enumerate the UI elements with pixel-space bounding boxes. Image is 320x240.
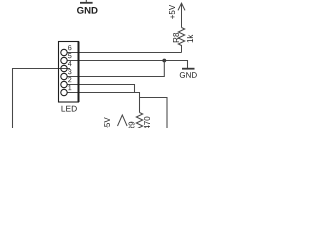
connector pin 2 circle bbox=[61, 81, 67, 87]
svg-text:470: 470 bbox=[143, 116, 152, 128]
connector pin 1 circle bbox=[61, 89, 67, 95]
svg-text:+5V: +5V bbox=[168, 4, 177, 19]
resistor R9 bbox=[136, 113, 142, 130]
supply +5V top arrow bbox=[178, 3, 185, 27]
supply +5V bottom arrow bbox=[118, 115, 128, 126]
wire pin5 to GND right bbox=[67, 61, 187, 69]
connector pin 6 circle bbox=[61, 49, 67, 55]
ground GND top symbol bbox=[80, 0, 93, 3]
wire pin2 jog down bbox=[67, 85, 134, 93]
ground GND right symbol bbox=[182, 68, 195, 70]
wire pin6 to R8 bbox=[67, 52, 181, 54]
node junction dot bbox=[162, 59, 166, 63]
wire pin1 to R9 bbox=[67, 93, 139, 113]
svg-text:R9: R9 bbox=[128, 121, 137, 128]
connector pin 4 circle bbox=[61, 65, 67, 71]
resistor R8 bbox=[178, 28, 184, 53]
svg-text:GND: GND bbox=[179, 71, 197, 80]
wire branch to bottom right bbox=[140, 98, 168, 129]
svg-text:+5V: +5V bbox=[103, 117, 112, 128]
svg-text:R8: R8 bbox=[172, 32, 181, 43]
svg-text:GND: GND bbox=[77, 6, 98, 17]
connector LED box bbox=[59, 42, 79, 103]
svg-text:LED: LED bbox=[61, 103, 77, 113]
svg-text:1k: 1k bbox=[186, 34, 195, 43]
wire pin4 to left side down bbox=[13, 69, 71, 129]
connector pin 3 circle bbox=[61, 73, 67, 79]
svg-text:1: 1 bbox=[68, 83, 72, 92]
wire pin3 up to junction bbox=[67, 61, 164, 77]
connector pin 5 circle bbox=[61, 57, 67, 63]
